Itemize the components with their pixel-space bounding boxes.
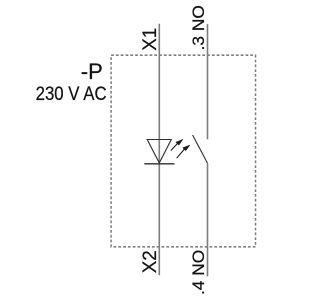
svg-text:X1: X1 [139,28,161,51]
LED cathode bar [144,163,174,165]
svg-text:.3 NO: .3 NO [189,5,208,50]
wire X1-X2 (lamp branch) [158,24,160,276]
svg-text:X2: X2 [139,250,161,273]
wire .4 (contact bottom segment) [207,163,209,276]
svg-text:-P: -P [81,59,103,84]
svg-text:230 V AC: 230 V AC [36,83,107,105]
lamp LED triangle (anode) [147,140,171,163]
module outline (dashed enclosure) [111,55,255,247]
wire .3 (contact top segment) [207,24,209,139]
LED light emission arrow 2 [177,145,190,158]
svg-text:.4 NO: .4 NO [189,250,208,295]
NO contact actuator (slanted moving contact) [193,135,208,163]
LED light emission arrow 1 [171,139,183,150]
